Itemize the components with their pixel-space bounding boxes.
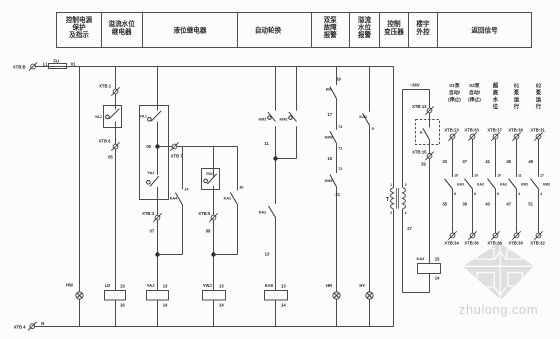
svg-text:27: 27 xyxy=(407,226,412,231)
svg-text:行: 行 xyxy=(513,103,520,111)
svg-text:水: 水 xyxy=(493,96,499,104)
svg-text:09: 09 xyxy=(206,229,211,234)
svg-text:XTB:23: XTB:23 xyxy=(444,127,459,132)
svg-text:XTB 6: XTB 6 xyxy=(99,138,112,143)
svg-text:KM1: KM1 xyxy=(521,183,528,187)
svg-text:02: 02 xyxy=(536,84,542,90)
svg-text:zhulong.com: zhulong.com xyxy=(459,302,538,317)
svg-text:71: 71 xyxy=(338,146,342,150)
svg-text:XTB:33: XTB:33 xyxy=(464,127,479,132)
svg-text:保护: 保护 xyxy=(71,23,86,32)
svg-text:41: 41 xyxy=(485,159,490,164)
svg-text:KA3: KA3 xyxy=(500,183,507,187)
svg-text:~36V: ~36V xyxy=(410,82,420,87)
svg-text:溢流水位: 溢流水位 xyxy=(109,19,136,28)
svg-text:16: 16 xyxy=(120,303,125,308)
svg-text:6: 6 xyxy=(497,192,499,196)
svg-text:05: 05 xyxy=(146,144,151,149)
svg-text:73: 73 xyxy=(338,125,342,129)
svg-text:自动轮换: 自动轮换 xyxy=(255,26,282,35)
svg-text:6: 6 xyxy=(474,192,476,196)
svg-text:01泵: 01泵 xyxy=(449,82,459,89)
svg-text:报警: 报警 xyxy=(324,30,338,39)
svg-text:11: 11 xyxy=(264,141,269,146)
svg-text:10: 10 xyxy=(474,173,478,177)
svg-text:4: 4 xyxy=(405,211,407,215)
svg-text:XTB:32: XTB:32 xyxy=(530,241,545,246)
svg-text:10: 10 xyxy=(239,186,243,190)
svg-text:15: 15 xyxy=(435,257,440,262)
svg-text:溢流: 溢流 xyxy=(358,15,372,24)
svg-text:YAJ: YAJ xyxy=(95,115,102,119)
svg-text:05: 05 xyxy=(108,154,113,159)
svg-text:KA0: KA0 xyxy=(265,283,274,288)
svg-text:72: 72 xyxy=(338,167,342,171)
svg-text:KA2: KA2 xyxy=(259,210,267,214)
svg-text:KM2: KM2 xyxy=(325,179,333,183)
svg-text:21: 21 xyxy=(335,192,340,197)
svg-text:KA1: KA1 xyxy=(224,197,232,201)
svg-text:HR: HR xyxy=(326,283,332,288)
svg-text:39: 39 xyxy=(462,202,467,207)
svg-text:自动/: 自动/ xyxy=(449,89,461,96)
svg-text:L1: L1 xyxy=(43,61,49,66)
svg-text:5: 5 xyxy=(372,127,374,131)
svg-text:运: 运 xyxy=(536,96,542,104)
svg-text:2: 2 xyxy=(390,211,392,215)
svg-text:XTB:3: XTB:3 xyxy=(142,211,155,216)
svg-text:LD: LD xyxy=(105,283,111,288)
svg-text:(停止): (停止) xyxy=(448,96,461,103)
svg-text:XTB 4: XTB 4 xyxy=(14,325,27,330)
svg-text:14: 14 xyxy=(163,303,168,308)
svg-text:10: 10 xyxy=(497,173,501,177)
svg-text:故障: 故障 xyxy=(324,23,338,32)
svg-text:继电器: 继电器 xyxy=(112,27,132,36)
svg-text:XTB:31: XTB:31 xyxy=(530,127,545,132)
svg-text:14: 14 xyxy=(281,303,286,308)
svg-text:29: 29 xyxy=(421,162,426,167)
svg-text:07: 07 xyxy=(150,229,155,234)
svg-text:XTB:37: XTB:37 xyxy=(487,127,502,132)
svg-text:13: 13 xyxy=(281,284,286,289)
svg-text:11: 11 xyxy=(518,173,522,177)
svg-text:XTB:15: XTB:15 xyxy=(412,149,427,154)
svg-text:KM2: KM2 xyxy=(279,117,287,121)
svg-text:XTB:36: XTB:36 xyxy=(464,241,479,246)
svg-text:49: 49 xyxy=(528,159,533,164)
svg-text:KA4: KA4 xyxy=(170,197,178,201)
svg-text:KM2: KM2 xyxy=(543,183,550,187)
svg-text:KM: KM xyxy=(326,88,332,92)
svg-text:51: 51 xyxy=(528,202,533,207)
svg-text:14: 14 xyxy=(435,275,440,280)
svg-text:及指示: 及指示 xyxy=(69,30,89,39)
svg-text:变压器: 变压器 xyxy=(384,27,404,36)
svg-text:自动/: 自动/ xyxy=(469,89,481,96)
svg-text:KA3: KA3 xyxy=(416,257,424,261)
svg-text:YWJ: YWJ xyxy=(206,172,214,176)
svg-text:HY: HY xyxy=(359,283,365,288)
svg-text:位: 位 xyxy=(493,103,499,111)
svg-text:YAJ: YAJ xyxy=(147,283,155,288)
svg-text:KA3: KA3 xyxy=(457,183,464,187)
svg-text:XTB:38: XTB:38 xyxy=(487,241,502,246)
svg-text:T: T xyxy=(386,197,389,203)
svg-text:双泵: 双泵 xyxy=(324,15,338,24)
svg-text:E: E xyxy=(420,131,423,135)
svg-text:控制: 控制 xyxy=(387,19,401,28)
svg-text:FU: FU xyxy=(54,58,60,63)
svg-text:01: 01 xyxy=(514,84,520,90)
svg-text:33: 33 xyxy=(442,159,447,164)
svg-text:4: 4 xyxy=(518,192,520,196)
svg-text:XTB 7: XTB 7 xyxy=(171,154,184,159)
svg-text:13: 13 xyxy=(265,252,270,257)
svg-text:超: 超 xyxy=(492,82,499,90)
svg-text:XTB:39: XTB:39 xyxy=(508,127,523,132)
svg-text:15: 15 xyxy=(327,156,332,161)
svg-text:3: 3 xyxy=(405,183,407,187)
svg-text:14: 14 xyxy=(184,187,189,191)
svg-text:高: 高 xyxy=(493,89,499,97)
svg-text:KM3: KM3 xyxy=(325,136,333,140)
svg-text:XTB 1: XTB 1 xyxy=(99,84,112,89)
svg-text:N: N xyxy=(41,321,44,326)
svg-text:35: 35 xyxy=(442,202,447,207)
svg-text:17: 17 xyxy=(540,173,544,177)
svg-text:02泵: 02泵 xyxy=(469,82,479,89)
svg-text:4: 4 xyxy=(540,192,542,196)
svg-text:YAJ: YAJ xyxy=(140,114,147,118)
svg-text:13: 13 xyxy=(163,284,168,289)
svg-text:楼宇: 楼宇 xyxy=(416,19,430,28)
svg-text:外控: 外控 xyxy=(416,27,430,36)
svg-text:KA3: KA3 xyxy=(477,183,484,187)
svg-text:01: 01 xyxy=(71,61,76,66)
svg-text:XTB:5: XTB:5 xyxy=(198,211,211,216)
svg-text:14: 14 xyxy=(219,303,224,308)
svg-text:XTB:34: XTB:34 xyxy=(444,241,459,246)
svg-text:报警: 报警 xyxy=(358,30,372,39)
svg-text:泵: 泵 xyxy=(514,89,520,97)
svg-text:KM1: KM1 xyxy=(258,117,266,121)
svg-text:KA1: KA1 xyxy=(359,115,367,119)
svg-text:泵: 泵 xyxy=(536,89,542,97)
svg-text:37: 37 xyxy=(462,159,467,164)
svg-text:控制电源: 控制电源 xyxy=(66,15,93,24)
svg-text:YAJ: YAJ xyxy=(147,171,154,175)
svg-text:19: 19 xyxy=(454,173,458,177)
svg-text:运: 运 xyxy=(514,96,520,104)
svg-text:行: 行 xyxy=(535,103,542,111)
svg-text:XTB:B: XTB:B xyxy=(13,65,26,70)
svg-text:13: 13 xyxy=(120,284,125,289)
svg-text:(停止): (停止) xyxy=(468,96,481,103)
svg-text:返回信号: 返回信号 xyxy=(471,26,498,35)
svg-text:17: 17 xyxy=(327,112,332,117)
svg-text:13: 13 xyxy=(219,284,224,289)
svg-text:6: 6 xyxy=(454,192,456,196)
svg-text:YWJ: YWJ xyxy=(203,283,213,288)
svg-text:43: 43 xyxy=(485,202,490,207)
svg-text:47: 47 xyxy=(506,202,511,207)
svg-text:XTB:30: XTB:30 xyxy=(508,241,523,246)
svg-text:液位继电器: 液位继电器 xyxy=(174,26,207,35)
svg-text:HW: HW xyxy=(66,283,73,288)
svg-text:19: 19 xyxy=(336,76,341,81)
svg-text:45: 45 xyxy=(506,159,511,164)
svg-text:水位: 水位 xyxy=(358,23,372,32)
svg-text:1: 1 xyxy=(390,183,392,187)
svg-text:XTB:13: XTB:13 xyxy=(412,104,427,109)
